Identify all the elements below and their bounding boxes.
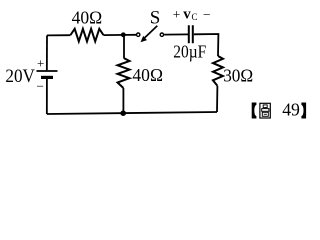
figure caption left lenticular bracket — [252, 103, 257, 119]
wire: top rail, resistor to switch — [103, 34, 136, 36]
node B junction dot (bottom of middle branch) — [120, 110, 126, 116]
wire: top rail left segment — [47, 34, 71, 36]
battery V1 long plate — [37, 70, 58, 72]
svg-text:49: 49 — [282, 100, 300, 120]
switch S blade with arrowhead — [141, 26, 158, 42]
svg-text:+: + — [173, 7, 181, 22]
battery V1 short plate — [41, 76, 53, 79]
svg-text:v: v — [183, 6, 191, 22]
svg-text:S: S — [150, 8, 161, 29]
resistor R3 30ohm (right vertical) — [213, 56, 223, 86]
wire: middle branch top — [123, 35, 125, 58]
svg-text:−: − — [37, 79, 44, 94]
switch S terminal circle left — [137, 33, 140, 36]
svg-text:40Ω: 40Ω — [72, 8, 103, 28]
svg-text:20µF: 20µF — [173, 41, 206, 61]
svg-text:20V: 20V — [5, 66, 35, 87]
resistor R1 40ohm (top horizontal) — [71, 29, 104, 42]
svg-text:+: + — [37, 55, 44, 70]
wire: middle branch bottom — [122, 88, 124, 113]
label +vC- above capacitor — [173, 6, 211, 22]
svg-text:40Ω: 40Ω — [132, 65, 163, 85]
wire: capacitor to right corner, down to resistor — [194, 34, 219, 56]
resistor R2 40ohm (middle vertical) — [118, 58, 130, 88]
wire: left side top (corner to battery) — [46, 35, 48, 70]
switch S terminal circle right — [160, 33, 163, 36]
figure caption right lenticular bracket — [301, 103, 306, 119]
node A junction dot (top of middle branch) — [121, 32, 126, 37]
svg-text:30Ω: 30Ω — [223, 65, 253, 85]
wire: left side bottom (battery to bottom rail) — [46, 79, 48, 115]
wire: bottom rail — [47, 112, 217, 114]
wire: right resistor to bottom rail — [216, 86, 218, 112]
capacitor C1 plates — [189, 25, 193, 43]
svg-text:−: − — [203, 7, 211, 22]
wire: switch to capacitor — [164, 33, 188, 35]
figure caption CJK glyph (drawn) — [260, 103, 270, 118]
svg-text:C: C — [192, 12, 198, 22]
